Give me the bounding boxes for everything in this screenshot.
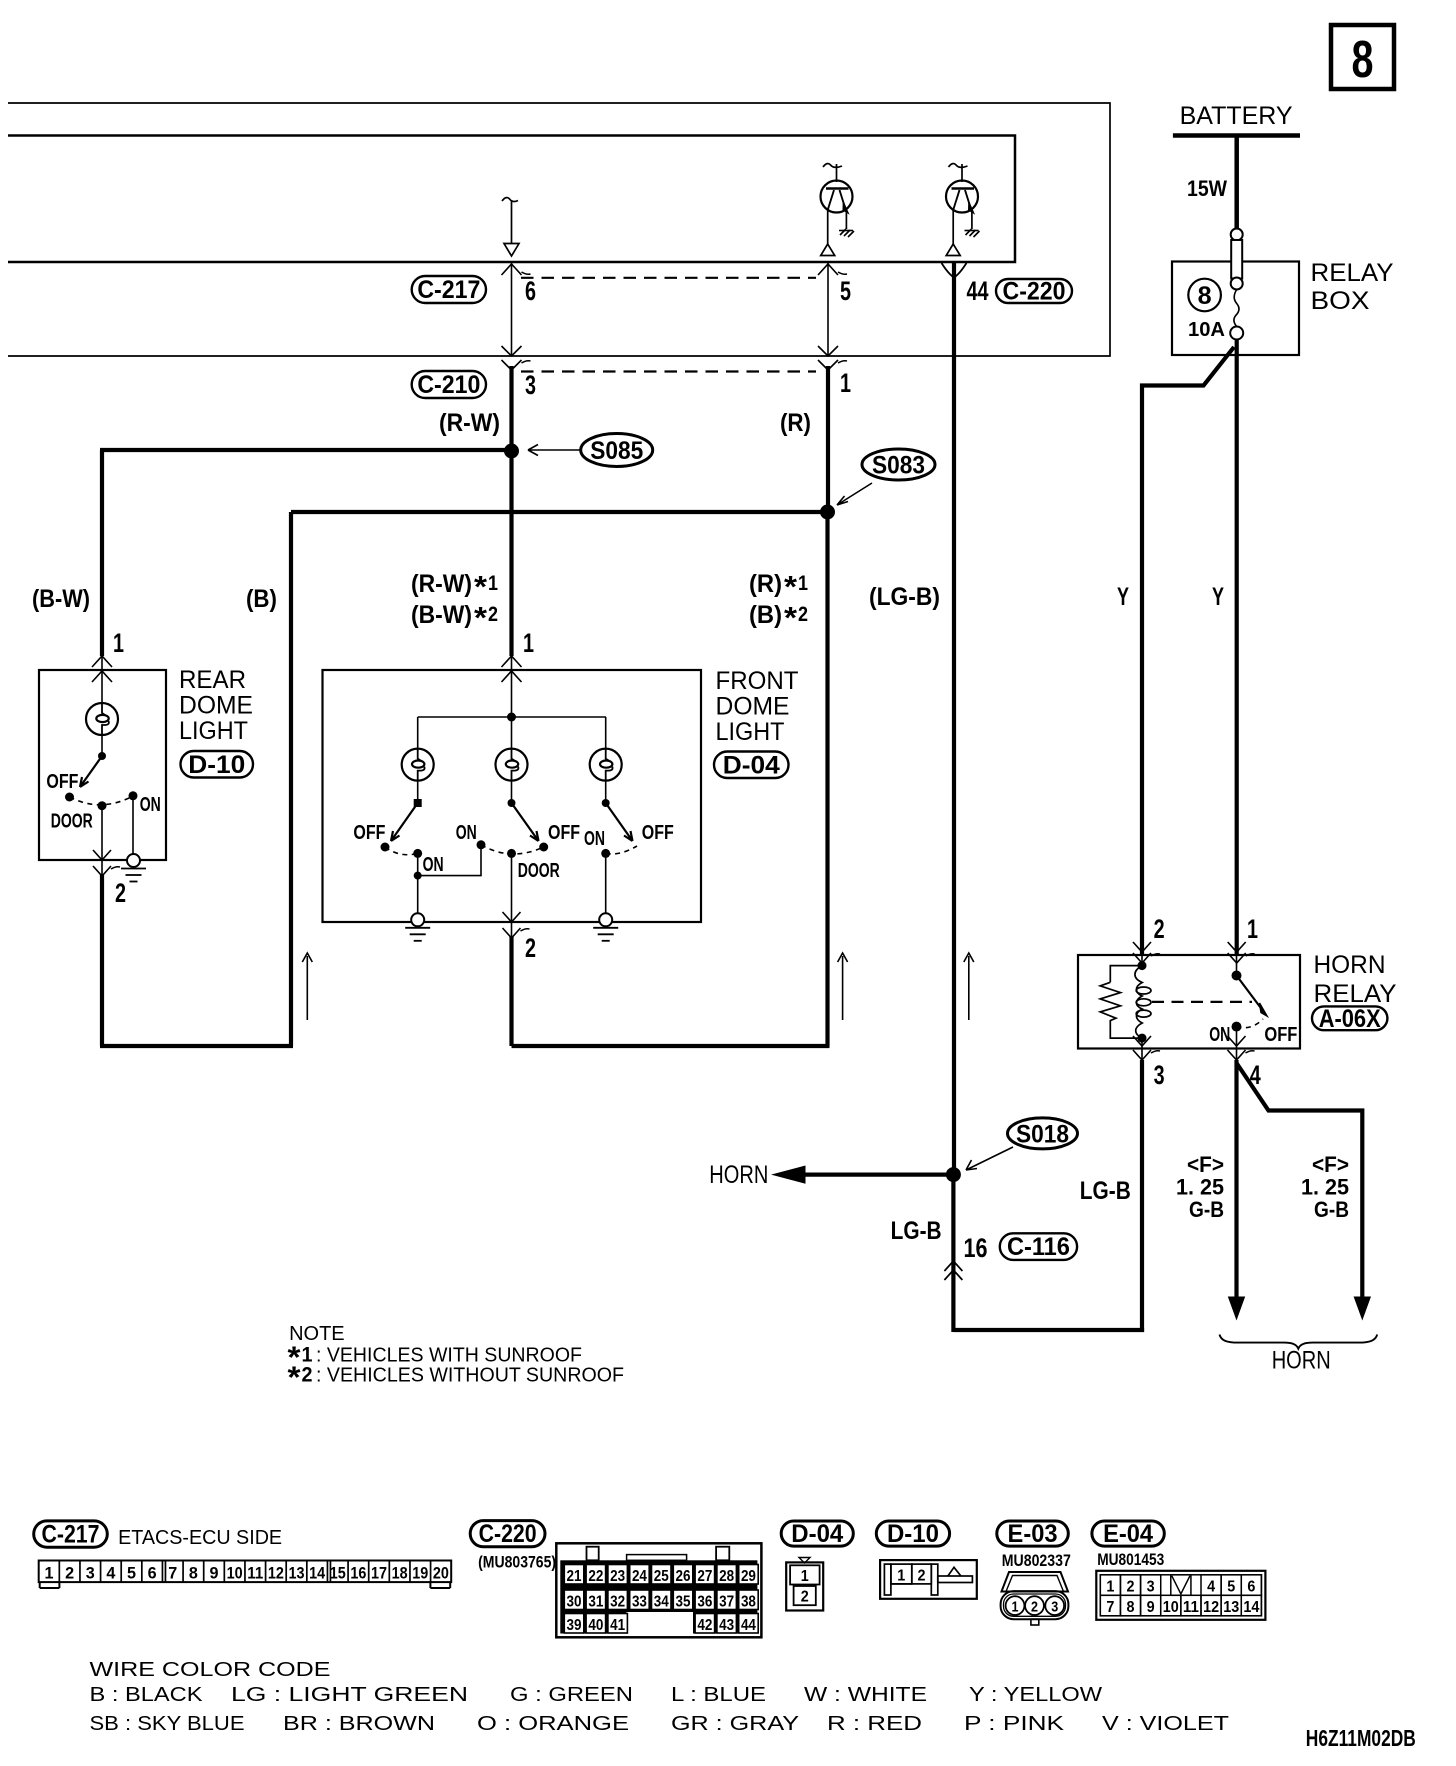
switch1 OFF contact <box>381 843 390 852</box>
rear dome lamp <box>86 703 118 735</box>
svg-text:G-B: G-B <box>1189 1197 1224 1222</box>
svg-text:14: 14 <box>309 1563 325 1582</box>
switch2 OFF contact <box>539 843 548 852</box>
switch2 ON contact <box>477 840 486 849</box>
battery bus line <box>1173 133 1300 138</box>
front dome pin 1 connector arrows <box>502 656 522 667</box>
left horn arrowhead <box>1229 1297 1245 1319</box>
svg-text:C-210: C-210 <box>417 371 480 399</box>
svg-text:RELAY: RELAY <box>1311 259 1394 287</box>
svg-text:10A: 10A <box>1188 319 1225 341</box>
front dome feed rail <box>418 716 606 718</box>
pin 6 wire <box>511 262 513 356</box>
svg-text:ON: ON <box>1209 1024 1230 1046</box>
svg-text:8: 8 <box>1127 1599 1135 1616</box>
rear dome pin 2 wire down <box>100 874 104 1046</box>
svg-text:1: 1 <box>488 572 498 595</box>
svg-text:BR : BROWN: BR : BROWN <box>283 1713 435 1735</box>
svg-text:11: 11 <box>1183 1599 1199 1616</box>
wire down from S085 to front dome pin 1 <box>509 451 513 656</box>
horn bracket <box>1220 1335 1378 1349</box>
C-116 crossing double chevron <box>944 1261 962 1280</box>
svg-text:<F>: <F> <box>1187 1152 1224 1177</box>
battery wire down <box>1234 136 1239 230</box>
svg-text:23: 23 <box>610 1568 625 1585</box>
svg-text:B : BLACK: B : BLACK <box>90 1684 204 1706</box>
svg-text:OFF: OFF <box>46 771 78 793</box>
svg-text:3: 3 <box>1051 1599 1058 1616</box>
page number box 8 <box>1331 25 1394 89</box>
horn relay pin 4 arrows <box>1228 1036 1246 1046</box>
svg-text:(LG-B): (LG-B) <box>869 583 940 611</box>
svg-text:C-217: C-217 <box>42 1521 100 1549</box>
wire stubs inside relay box <box>1141 955 1143 966</box>
pin 5 wire <box>827 262 829 356</box>
wire R-W pin3 down to S085 <box>509 366 513 451</box>
svg-text:V : VIOLET: V : VIOLET <box>1102 1713 1229 1735</box>
svg-text:16: 16 <box>350 1563 366 1582</box>
svg-text:44: 44 <box>741 1617 756 1634</box>
svg-text:D-04: D-04 <box>791 1520 843 1548</box>
wire rear dome bottom run <box>100 1044 293 1048</box>
wire bottom run to horn relay pin3 wire <box>953 1328 1144 1332</box>
svg-text:1. 25: 1. 25 <box>1176 1175 1224 1200</box>
svg-text:GR : GRAY: GR : GRAY <box>671 1713 799 1735</box>
rear dome DOOR wire down <box>101 806 103 860</box>
rear dome DOOR contact <box>98 801 107 810</box>
svg-text:(R-W): (R-W) <box>411 570 472 598</box>
svg-text:2: 2 <box>525 933 536 963</box>
svg-text:44: 44 <box>967 276 989 306</box>
pin 6 arrow at C-217 <box>502 264 531 275</box>
Y wire 2 from relay box down <box>1235 339 1239 955</box>
rear dome light box D-10 <box>39 670 166 860</box>
svg-text:BOX: BOX <box>1311 287 1370 315</box>
wire from S083 left <box>291 510 828 514</box>
relay contact arc <box>1237 1019 1264 1028</box>
svg-text:17: 17 <box>371 1563 387 1582</box>
svg-text:1: 1 <box>113 628 124 658</box>
front dome light box D-04 <box>323 670 702 922</box>
svg-text:16: 16 <box>964 1233 988 1263</box>
connector label C-220 (bottom) <box>470 1521 545 1547</box>
svg-text:40: 40 <box>588 1617 603 1634</box>
front dome ground 1 <box>405 913 430 941</box>
svg-text:Y: Y <box>1212 583 1224 611</box>
svg-text:P : PINK: P : PINK <box>964 1713 1065 1735</box>
rear dome OFF contact <box>65 793 74 802</box>
rear dome ON contact <box>129 791 138 800</box>
svg-text:1: 1 <box>45 1563 54 1582</box>
svg-text:2: 2 <box>302 1364 313 1387</box>
svg-text:42: 42 <box>697 1617 712 1634</box>
resistor branch <box>1110 966 1142 983</box>
svg-text:(B): (B) <box>749 601 782 629</box>
svg-text:8: 8 <box>1198 282 1212 310</box>
svg-text:Y: Y <box>1117 583 1129 611</box>
svg-text:21: 21 <box>567 1568 582 1585</box>
svg-text:: VEHICLES WITH SUNROOF: : VEHICLES WITH SUNROOF <box>316 1345 582 1367</box>
connector C-210 label <box>412 371 486 398</box>
svg-text:C-220: C-220 <box>1003 278 1066 306</box>
relay coil top dot <box>1138 961 1147 970</box>
svg-text:2: 2 <box>801 1589 809 1606</box>
svg-text:G-B: G-B <box>1314 1197 1349 1222</box>
connector C-220 label <box>996 279 1072 303</box>
svg-text:18: 18 <box>392 1563 408 1582</box>
svg-text:5: 5 <box>127 1563 136 1582</box>
svg-text:15: 15 <box>330 1563 346 1582</box>
svg-text:8: 8 <box>1352 31 1374 89</box>
ETACS-ECU inner box <box>8 136 1015 263</box>
rear dome pin 2 arrows <box>93 866 120 876</box>
svg-text:10: 10 <box>1163 1599 1179 1616</box>
relay box <box>1172 262 1299 356</box>
front dome lamp 3 <box>590 749 622 781</box>
svg-text:22: 22 <box>588 1568 603 1585</box>
svg-text:15W: 15W <box>1187 176 1227 201</box>
svg-text:LIGHT: LIGHT <box>179 717 248 745</box>
svg-text:LG-B: LG-B <box>1080 1177 1131 1205</box>
rear dome switch common dot <box>98 752 106 760</box>
arrow to S018 <box>966 1147 1013 1170</box>
horn relay pin 2 arrows <box>1133 942 1151 952</box>
front dome feed junction dot <box>507 713 516 722</box>
svg-text:26: 26 <box>676 1568 691 1585</box>
svg-text:14: 14 <box>1243 1599 1259 1616</box>
svg-text:(B-W): (B-W) <box>32 585 90 613</box>
svg-text:7: 7 <box>168 1563 177 1582</box>
svg-text:: VEHICLES WITHOUT SUNROOF: : VEHICLES WITHOUT SUNROOF <box>316 1365 624 1387</box>
switch2 blade <box>512 803 539 841</box>
pin 44 terminal symbol <box>942 263 967 278</box>
svg-text:ETACS-ECU SIDE: ETACS-ECU SIDE <box>118 1527 282 1549</box>
switch2 DOOR wire down <box>511 853 513 922</box>
svg-text:O : ORANGE: O : ORANGE <box>477 1713 629 1735</box>
svg-text:*: * <box>288 1360 302 1395</box>
svg-text:DOME: DOME <box>179 692 253 720</box>
svg-text:(R-W): (R-W) <box>439 409 500 437</box>
horn relay box A-06X <box>1078 955 1300 1049</box>
ETACS-ECU outer box <box>8 103 1110 356</box>
transistor driver (pin 44) <box>946 164 980 256</box>
svg-text:E-03: E-03 <box>1008 1520 1058 1548</box>
svg-text:D-10: D-10 <box>887 1520 939 1548</box>
switch1 ON wire down and to switch2 ON <box>418 845 481 876</box>
svg-text:3: 3 <box>1147 1579 1155 1596</box>
svg-text:G : GREEN: G : GREEN <box>510 1684 633 1706</box>
C-217 pinout strip <box>39 1561 452 1589</box>
front dome lamp 1 <box>402 749 434 781</box>
wire LG-B down from S018 <box>951 1175 955 1332</box>
D-10 pinout <box>880 1560 977 1599</box>
svg-text:12: 12 <box>1203 1599 1219 1616</box>
svg-text:H6Z11M02DB: H6Z11M02DB <box>1306 1725 1416 1751</box>
svg-text:30: 30 <box>567 1593 582 1610</box>
svg-text:A-06X: A-06X <box>1319 1005 1381 1033</box>
switch3 ON wire to ground <box>605 853 607 913</box>
svg-text:2: 2 <box>65 1563 74 1582</box>
svg-text:6: 6 <box>148 1563 157 1582</box>
svg-text:DOOR: DOOR <box>518 860 560 882</box>
ECU internal output symbol (pin 6) <box>502 198 518 202</box>
arrow to S083 <box>837 483 872 505</box>
svg-text:5: 5 <box>1227 1579 1235 1596</box>
svg-text:6: 6 <box>525 276 536 306</box>
svg-text:(B): (B) <box>246 585 277 613</box>
svg-text:WIRE COLOR CODE: WIRE COLOR CODE <box>90 1659 331 1681</box>
connector label D-04 (bottom) <box>781 1521 853 1546</box>
svg-text:DOOR: DOOR <box>51 811 93 833</box>
relay switch pivot dot <box>1232 971 1242 981</box>
svg-text:R : RED: R : RED <box>827 1713 922 1735</box>
svg-text:5: 5 <box>840 276 851 306</box>
svg-text:W : WHITE: W : WHITE <box>804 1684 927 1706</box>
svg-text:35: 35 <box>676 1593 691 1610</box>
svg-text:C-217: C-217 <box>417 276 480 304</box>
svg-text:(R): (R) <box>749 570 782 598</box>
svg-text:1: 1 <box>1012 1599 1019 1616</box>
wire down from S083 <box>825 512 829 1046</box>
wire LG-B pin 3 down <box>1140 1060 1144 1332</box>
svg-text:9: 9 <box>1147 1599 1155 1616</box>
svg-text:10: 10 <box>227 1563 243 1582</box>
switch1 arc <box>385 847 418 855</box>
switch2 arc <box>481 845 544 854</box>
svg-text:E-04: E-04 <box>1103 1520 1153 1548</box>
svg-text:2: 2 <box>115 878 126 908</box>
svg-text:*: * <box>784 569 798 604</box>
svg-text:33: 33 <box>632 1593 647 1610</box>
svg-text:38: 38 <box>741 1593 756 1610</box>
C-220 pinout <box>556 1543 761 1637</box>
svg-text:43: 43 <box>719 1617 734 1634</box>
connector label C-116 <box>1000 1233 1077 1260</box>
svg-text:7: 7 <box>1106 1599 1114 1616</box>
svg-text:20: 20 <box>433 1563 449 1582</box>
rear dome ON wire to ground <box>132 796 134 855</box>
svg-text:Y : YELLOW: Y : YELLOW <box>969 1684 1102 1706</box>
direction arrow R/B wire <box>838 953 848 1020</box>
wire R pin1 down to S083 <box>826 366 830 512</box>
svg-text:31: 31 <box>588 1593 603 1610</box>
wire to HORN <box>805 1172 953 1176</box>
svg-text:S083: S083 <box>872 452 925 480</box>
rear dome switch blade <box>80 756 102 787</box>
svg-text:OFF: OFF <box>353 822 385 844</box>
svg-text:DOME: DOME <box>716 693 790 721</box>
splice label S083 <box>862 449 935 480</box>
svg-text:D-10: D-10 <box>188 751 245 779</box>
svg-text:LG : LIGHT GREEN: LG : LIGHT GREEN <box>231 1684 468 1706</box>
svg-text:L : BLUE: L : BLUE <box>671 1684 766 1706</box>
horn relay pin 1 arrows <box>1228 942 1246 952</box>
wire from S085 left to rear dome <box>100 448 512 452</box>
svg-text:REAR: REAR <box>179 666 246 694</box>
svg-text:11: 11 <box>247 1563 263 1582</box>
svg-text:1: 1 <box>1247 914 1258 944</box>
svg-text:2: 2 <box>918 1568 926 1585</box>
relay ON wire down <box>1236 1027 1238 1048</box>
connector label E-03 (bottom) <box>997 1521 1069 1546</box>
svg-text:MU801453: MU801453 <box>1097 1550 1164 1569</box>
switch1 ON contact <box>413 849 422 858</box>
svg-text:1. 25: 1. 25 <box>1301 1175 1349 1200</box>
svg-text:1: 1 <box>523 628 534 658</box>
splice dot S018 <box>946 1167 961 1182</box>
svg-text:LIGHT: LIGHT <box>716 718 785 746</box>
rear dome lamp feed wire <box>101 670 103 704</box>
svg-text:2: 2 <box>1154 914 1165 944</box>
svg-text:C-220: C-220 <box>479 1520 537 1548</box>
connector label D-10 (bottom) <box>876 1521 949 1546</box>
svg-text:MU802337: MU802337 <box>1002 1551 1071 1570</box>
connector label C-217 (bottom) <box>34 1521 108 1547</box>
front dome pin 2 wire down <box>509 936 513 1046</box>
relay coil wire down <box>1141 1038 1143 1048</box>
svg-text:ON: ON <box>423 854 444 876</box>
rear dome pin 1 connector arrows <box>92 656 112 667</box>
rear dome contact arc <box>70 796 134 805</box>
splice dot S083 <box>820 505 835 520</box>
svg-text:ON: ON <box>584 828 605 850</box>
svg-text:FRONT: FRONT <box>716 667 799 695</box>
wire front dome bottom run <box>512 1044 830 1048</box>
direction arrow B wire <box>302 953 312 1020</box>
svg-text:19: 19 <box>412 1563 428 1582</box>
svg-text:4: 4 <box>1207 1579 1215 1596</box>
Y wire 1 jog <box>1142 347 1234 955</box>
wire pin 4 down to left horn <box>1234 1060 1238 1300</box>
svg-text:LG-B: LG-B <box>891 1217 942 1245</box>
pin 1 arrows at C-210 <box>818 346 838 356</box>
direction arrow LG-B wire <box>964 953 974 1020</box>
splice dot S085 <box>504 444 519 459</box>
svg-text:12: 12 <box>268 1563 284 1582</box>
svg-text:ON: ON <box>456 822 477 844</box>
svg-text:1: 1 <box>1106 1579 1114 1596</box>
svg-text:28: 28 <box>719 1568 734 1585</box>
D-04 pinout <box>786 1558 823 1611</box>
svg-text:(R): (R) <box>780 409 811 437</box>
junction dot <box>414 872 422 880</box>
relay switch blade <box>1237 976 1263 1010</box>
svg-text:S018: S018 <box>1016 1121 1069 1149</box>
front dome pin 2 arrows <box>503 928 530 938</box>
svg-text:4: 4 <box>106 1563 116 1582</box>
pin 5 arrow at C-217 <box>818 264 847 275</box>
front dome ground 2 <box>593 913 618 941</box>
svg-text:OFF: OFF <box>642 822 674 844</box>
E-03 pinout <box>1001 1572 1069 1625</box>
svg-text:ON: ON <box>140 794 161 816</box>
circled 8 fuse number <box>1188 279 1221 312</box>
svg-text:2: 2 <box>488 603 498 626</box>
lamp3 to switch3 <box>605 781 607 803</box>
transistor driver (pin 5) <box>821 164 855 256</box>
switch1 blade <box>391 803 418 841</box>
relay coil bottom dot <box>1138 1034 1147 1043</box>
front dome lamp 2 <box>496 749 528 781</box>
pin 44 wire (LG-B) <box>952 262 956 1175</box>
connector label D-04 <box>714 752 789 779</box>
svg-text:2: 2 <box>1031 1599 1038 1616</box>
switch2 DOOR contact <box>507 849 516 858</box>
svg-text:RELAY: RELAY <box>1314 980 1397 1008</box>
svg-text:13: 13 <box>289 1563 305 1582</box>
horn relay pin 3 arrows <box>1133 1036 1151 1046</box>
right horn arrowhead <box>1354 1297 1370 1319</box>
svg-text:1: 1 <box>897 1568 905 1585</box>
relay ON contact <box>1232 1022 1242 1032</box>
switch3 ON contact <box>601 849 610 858</box>
svg-text:27: 27 <box>697 1568 712 1585</box>
svg-text:34: 34 <box>654 1593 669 1610</box>
svg-text:<F>: <F> <box>1312 1152 1349 1177</box>
HORN arrowhead <box>773 1166 805 1183</box>
dashed link pins 3-1 <box>521 370 816 372</box>
svg-text:*: * <box>474 600 488 635</box>
pin 3 arrows at C-210 <box>502 346 522 356</box>
svg-text:24: 24 <box>632 1568 647 1585</box>
svg-text:37: 37 <box>719 1593 734 1610</box>
lamp1 to switch1 <box>417 781 419 803</box>
svg-text:39: 39 <box>567 1617 582 1634</box>
svg-text:(B-W): (B-W) <box>411 601 472 629</box>
svg-text:*: * <box>474 569 488 604</box>
svg-text:41: 41 <box>610 1617 625 1634</box>
switch1 common dot <box>414 799 422 807</box>
wire pin 4 branch to right horn <box>1237 1063 1363 1300</box>
front dome feed wire <box>511 670 513 749</box>
svg-text:OFF: OFF <box>548 822 580 844</box>
dashed link pins 6-5 <box>521 277 816 279</box>
svg-text:36: 36 <box>697 1593 712 1610</box>
svg-text:13: 13 <box>1223 1599 1239 1616</box>
splice label S018 <box>1008 1118 1078 1149</box>
switch3 arc <box>606 846 637 854</box>
svg-text:2: 2 <box>798 603 808 626</box>
svg-text:S085: S085 <box>590 437 643 465</box>
connector label E-04 (bottom) <box>1092 1521 1164 1546</box>
svg-text:8: 8 <box>189 1563 198 1582</box>
lamp2 to switch2 <box>511 781 513 803</box>
wire B-W down to rear dome pin 1 <box>100 450 104 656</box>
switch3 common dot <box>602 799 610 807</box>
svg-text:SB : SKY BLUE: SB : SKY BLUE <box>90 1713 245 1735</box>
svg-text:OFF: OFF <box>1264 1024 1297 1046</box>
svg-text:*: * <box>784 600 798 635</box>
svg-text:25: 25 <box>654 1568 669 1585</box>
rear dome ground <box>121 854 146 882</box>
arrow to S085 <box>528 445 580 456</box>
switch3 blade <box>606 803 633 841</box>
splice label S085 <box>581 434 653 467</box>
svg-text:29: 29 <box>741 1568 756 1585</box>
svg-text:1: 1 <box>798 572 808 595</box>
svg-text:9: 9 <box>210 1563 219 1582</box>
svg-text:HORN: HORN <box>709 1161 768 1189</box>
svg-text:C-116: C-116 <box>1007 1233 1070 1261</box>
svg-text:1: 1 <box>840 368 851 398</box>
fusible link / fuse symbol <box>1230 229 1243 340</box>
svg-text:6: 6 <box>1247 1579 1255 1596</box>
svg-text:1: 1 <box>801 1568 809 1585</box>
connector C-217 label <box>412 276 486 303</box>
svg-text:HORN: HORN <box>1272 1347 1331 1375</box>
resistor zigzag <box>1100 982 1142 1038</box>
switch1 ON wire to ground <box>417 876 419 913</box>
